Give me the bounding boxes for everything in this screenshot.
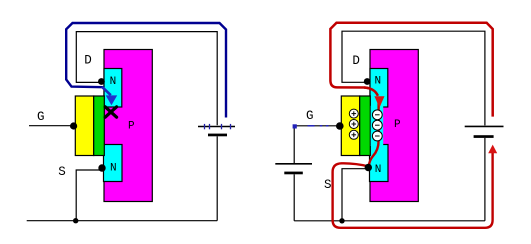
red arrow up through battery (right) [488, 145, 497, 154]
wire black loop D to battery + (right) [342, 31, 485, 125]
svg-text:D: D [352, 54, 360, 68]
svg-text:P: P [394, 119, 401, 131]
battery B1 negative plate [208, 134, 227, 137]
wire battery - down (right) [484, 138, 486, 221]
red arrow into drain N (right) [364, 88, 378, 96]
wire battery - down [216, 136, 218, 220]
blue arrow into drain N (blocked current) [106, 95, 118, 105]
wire gate battery bottom lead [293, 174, 295, 221]
carriers: gate plus charges [349, 109, 358, 139]
battery B2 negative plate (gate bias) [284, 172, 303, 175]
svg-text:N: N [375, 76, 382, 88]
blue blob gate wire corner [293, 124, 297, 128]
gate oxide green layer (left) [94, 96, 105, 156]
node junction bottom rail (right) [339, 218, 344, 223]
P substrate body (right) [370, 50, 418, 202]
node junction bottom rail [73, 218, 78, 223]
P substrate body (left) [104, 50, 152, 202]
wire source to bottom rail [76, 170, 101, 221]
blue arrow shaft over N [102, 87, 111, 95]
wire black loop D to battery + [76, 32, 217, 126]
carriers: channel electrons [372, 110, 382, 141]
wire blue drain-current loop [66, 23, 226, 118]
wire gate battery top lead [293, 126, 295, 164]
wire gate lead [29, 125, 72, 127]
blue dashes on gate wire [308, 125, 329, 127]
svg-text:S: S [324, 178, 332, 192]
battery B1 positive plate [198, 126, 235, 128]
wire bottom rail [27, 220, 218, 222]
N region top (drain, left) [104, 69, 122, 108]
node S contact (left) [98, 164, 105, 171]
svg-text:N: N [110, 76, 117, 88]
svg-text:G: G [37, 110, 45, 124]
node G contact (left) [70, 122, 77, 129]
gate electrode yellow (right) [341, 96, 359, 156]
svg-text:N: N [375, 164, 382, 176]
battery B3 negative plate (right) [474, 135, 494, 138]
N region top (drain, right) [370, 69, 388, 108]
node S contact (right) [365, 164, 372, 171]
svg-text:D: D [84, 54, 92, 68]
battery B3 positive plate (right) [465, 125, 504, 127]
wire gate lead black (right) [294, 125, 337, 127]
gate oxide green layer (right) [360, 96, 371, 156]
wire source to bottom rail (right) [342, 169, 370, 221]
wire bottom rail (right) [294, 220, 485, 222]
gate electrode yellow (left) [75, 96, 93, 156]
svg-text:P: P [128, 121, 135, 133]
svg-text:N: N [110, 163, 117, 175]
battery B2 positive plate (gate bias) [275, 163, 312, 165]
node D contact (right) [364, 78, 371, 85]
X mark blocked channel [105, 107, 116, 117]
wire red through channel [369, 99, 379, 166]
N region bottom (source, left) [104, 145, 123, 182]
wire red current loop top [330, 23, 492, 117]
wire red source exit [333, 153, 493, 228]
svg-text:G: G [306, 109, 314, 123]
node G contact (right) [336, 122, 344, 130]
battery B1 plus tick marks [205, 124, 231, 129]
N region bottom (source, right) [370, 145, 389, 182]
svg-text:S: S [58, 165, 66, 179]
node D contact (left) [98, 78, 105, 85]
induced n-channel [371, 106, 384, 146]
